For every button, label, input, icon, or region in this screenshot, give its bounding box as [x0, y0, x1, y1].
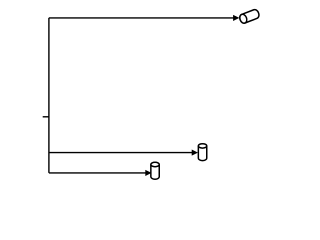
- cylinder middle: [198, 144, 206, 161]
- arrowhead middle: [192, 150, 197, 155]
- tick on trunk: [43, 116, 49, 118]
- arrowhead top: [233, 15, 238, 20]
- wire middle branch: [49, 152, 193, 154]
- wire trunk vertical: [48, 18, 50, 173]
- cylinder tilted top-right: [239, 9, 261, 25]
- cylinder bottom: [151, 162, 159, 179]
- wire top branch: [49, 17, 234, 19]
- arrowhead bottom: [146, 170, 151, 175]
- wire bottom branch: [49, 172, 146, 174]
